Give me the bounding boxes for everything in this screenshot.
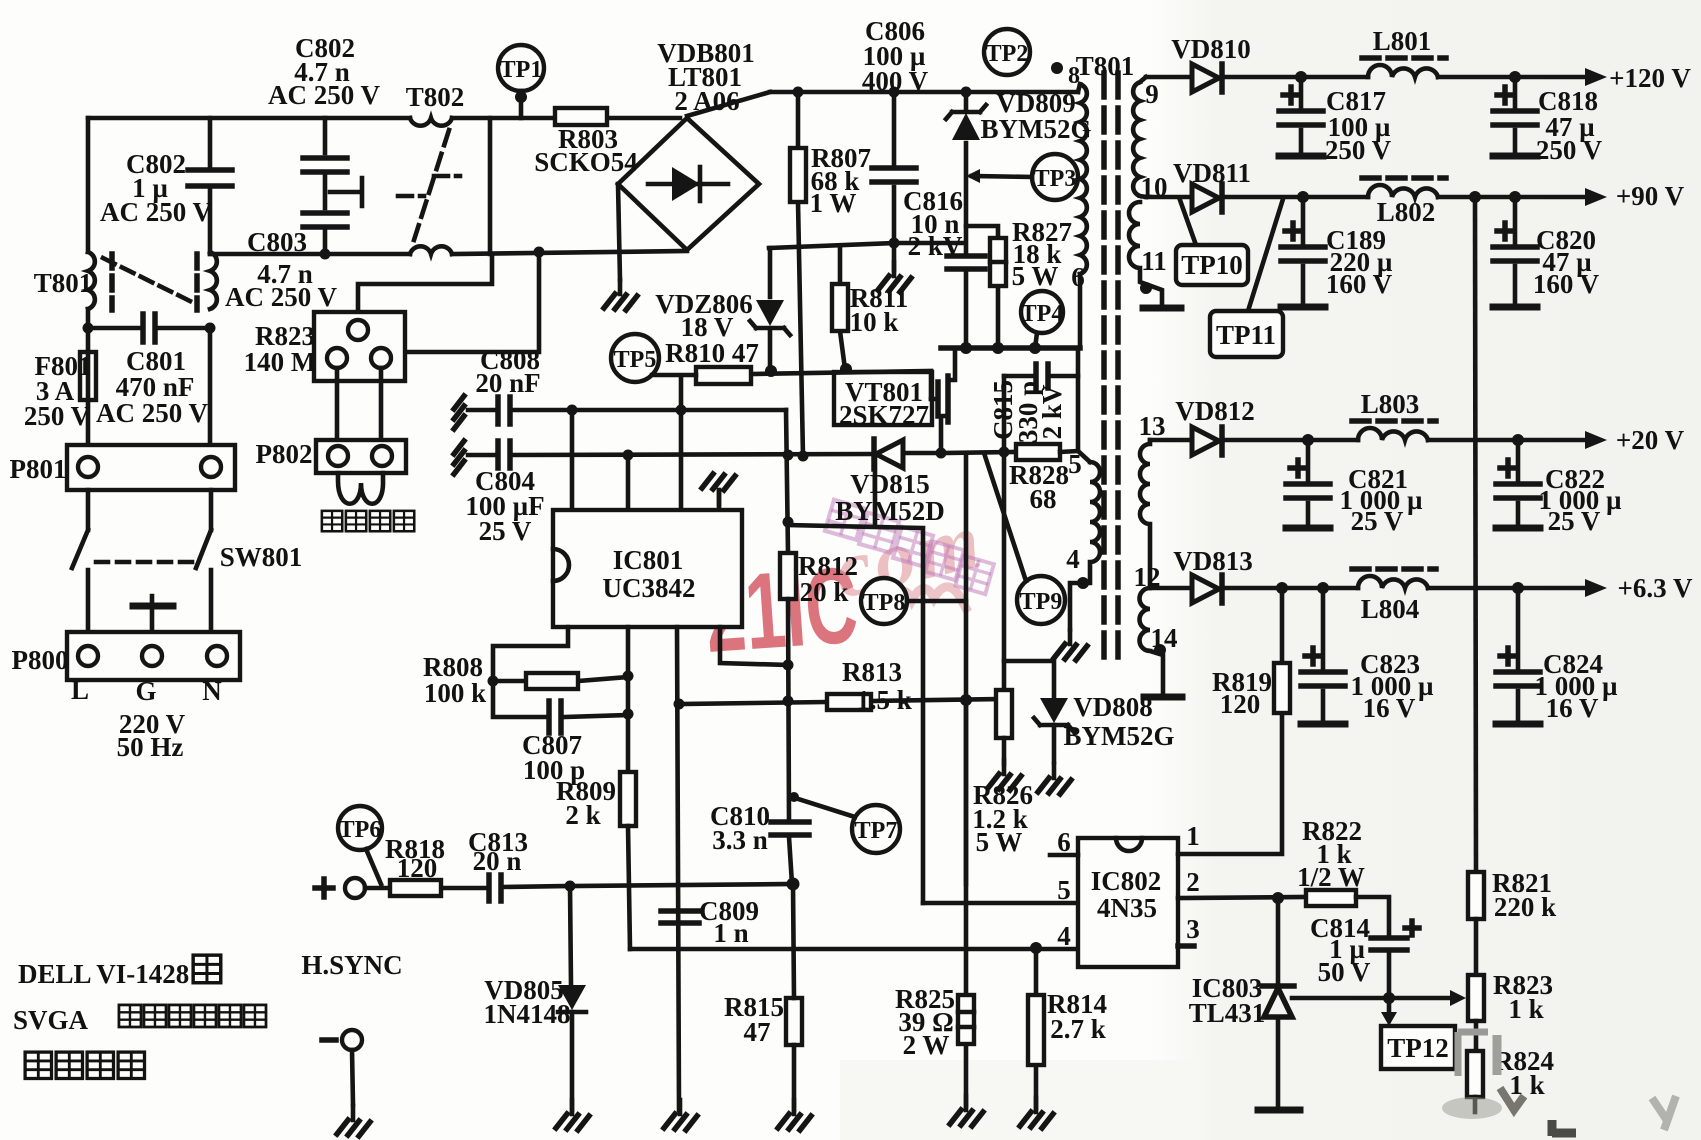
capacitor C822 bbox=[1496, 440, 1540, 528]
wire primary return bar bbox=[941, 345, 1080, 351]
svg-text:P802: P802 bbox=[256, 439, 313, 469]
capacitor C821 bbox=[1286, 440, 1330, 528]
test point TP12 box with arrow bbox=[1381, 1004, 1455, 1069]
node C808 line pin bbox=[567, 405, 578, 416]
node R819 bbox=[1276, 582, 1288, 594]
svg-text:2 A06: 2 A06 bbox=[674, 86, 739, 116]
node C818 bbox=[1509, 71, 1521, 83]
wire TP8 vertical bbox=[964, 455, 969, 884]
wire C815 down to R826 bbox=[1002, 376, 1007, 690]
svg-text:1/2 W: 1/2 W bbox=[1297, 862, 1365, 892]
arrow +20V bbox=[1585, 431, 1607, 449]
node C821 bbox=[1302, 434, 1314, 446]
transformer T802 bbox=[398, 118, 460, 254]
resistor R803 bbox=[555, 108, 607, 125]
svg-text:DELL VI-1428: DELL VI-1428 bbox=[18, 959, 189, 989]
node C804 line IC pin bbox=[623, 450, 634, 461]
svg-text:1.5 k: 1.5 k bbox=[856, 685, 912, 715]
capacitor C815 bbox=[1004, 364, 1078, 388]
zener VDZ806 bbox=[750, 248, 790, 366]
HV bus wire 400V bbox=[770, 90, 1078, 95]
node R823 ref bbox=[1475, 997, 1477, 999]
earth bar above P800 bbox=[133, 596, 173, 632]
node IC pin C808 line bbox=[676, 405, 687, 416]
ground R825 bbox=[950, 1096, 983, 1126]
ground C809 bbox=[664, 1100, 697, 1130]
resistor R822 bbox=[1306, 890, 1356, 906]
svg-text:TP12: TP12 bbox=[1387, 1033, 1449, 1063]
diode VD812 bbox=[1192, 427, 1222, 455]
node degauss tap bbox=[534, 247, 545, 258]
arrow +120V bbox=[1585, 68, 1607, 86]
diode VD808 bbox=[1034, 698, 1074, 762]
svg-text:T801: T801 bbox=[1076, 51, 1135, 81]
transistor VT801 MOSFET bbox=[834, 372, 948, 453]
svg-text:L802: L802 bbox=[1377, 197, 1436, 227]
node feedback tap bbox=[1469, 191, 1481, 203]
wire IC801 pin C809 vertical bbox=[677, 627, 679, 1110]
ground TL431 bar bbox=[1258, 1107, 1300, 1114]
svg-text:2 W: 2 W bbox=[903, 1030, 950, 1060]
connector P801 bbox=[67, 445, 235, 490]
node C820 bbox=[1509, 191, 1521, 203]
rail +20V wire bbox=[1150, 438, 1597, 443]
test point TP4 bbox=[1021, 291, 1063, 348]
wire R828 to pin5 bbox=[1060, 348, 1078, 452]
node R808 right bbox=[623, 671, 634, 682]
node pin14 dot bbox=[1154, 644, 1166, 656]
svg-text:L: L bbox=[71, 675, 89, 705]
wire HSYNC line bbox=[570, 884, 793, 886]
degauss coil loops bbox=[338, 473, 383, 504]
rail +120V wire bbox=[1146, 75, 1597, 80]
svg-text:TP2: TP2 bbox=[986, 41, 1029, 67]
test point TP7 bbox=[789, 792, 900, 853]
fuse F801 bbox=[80, 328, 96, 445]
diode VD805 bbox=[558, 886, 586, 1110]
capacitor C808 with ground flag bbox=[454, 396, 786, 429]
svg-text:20 nF: 20 nF bbox=[475, 368, 540, 398]
node C815 drop bbox=[999, 447, 1010, 458]
svg-text:14: 14 bbox=[1151, 623, 1178, 653]
svg-text:IC802: IC802 bbox=[1091, 866, 1162, 896]
ground pin14 bar bbox=[1144, 694, 1182, 701]
transformer T801 core bbox=[1104, 73, 1118, 662]
resistor R811 bbox=[832, 246, 848, 369]
svg-text:SVGA: SVGA bbox=[13, 1005, 89, 1035]
capacitor C810 bbox=[771, 822, 809, 884]
svg-text:+120 V: +120 V bbox=[1609, 63, 1691, 93]
resistor R823 bbox=[1468, 975, 1484, 1051]
test point TP10 link bbox=[1180, 200, 1196, 245]
test point TP5 bbox=[611, 334, 696, 382]
ground bridge bbox=[604, 280, 637, 310]
svg-text:250 V: 250 V bbox=[1536, 135, 1603, 165]
node R812 bottom IC link bbox=[783, 660, 794, 671]
capacitor C802 4.7n with shield tap bbox=[303, 118, 362, 254]
wire top AC bus bbox=[88, 116, 680, 121]
node TP12 drop bbox=[1383, 992, 1395, 1004]
resistor R825 bbox=[958, 700, 974, 1106]
svg-text:2 k: 2 k bbox=[565, 800, 600, 830]
node C816 line bbox=[889, 238, 900, 249]
node R812 top link bbox=[783, 517, 794, 528]
connector P800 bbox=[67, 632, 240, 680]
svg-text:250 V: 250 V bbox=[1325, 135, 1392, 165]
wire R822 to C814 bbox=[1356, 897, 1389, 935]
transformer T801 secondary winding 10-11 bbox=[1129, 202, 1162, 306]
svg-text:9: 9 bbox=[1145, 79, 1159, 109]
svg-text:IC801: IC801 bbox=[613, 545, 684, 575]
svg-text:1N4148: 1N4148 bbox=[484, 999, 571, 1029]
svg-text:250 V: 250 V bbox=[24, 401, 91, 431]
svg-text:TP1: TP1 bbox=[500, 57, 543, 83]
svg-text:AC 250 V: AC 250 V bbox=[268, 80, 381, 110]
transformer T801 secondary winding 12 bbox=[1140, 588, 1164, 694]
node VT801 source bbox=[936, 448, 947, 459]
ground H.SYNC bbox=[337, 1106, 370, 1136]
svg-text:BYM52D: BYM52D bbox=[835, 496, 945, 526]
wire VDZ806/R811/C816 line bbox=[769, 243, 965, 248]
svg-text:120: 120 bbox=[1220, 689, 1261, 719]
capacitor C802 1u bbox=[188, 118, 232, 254]
wire TP5 to IC801 pin bbox=[679, 376, 684, 510]
capacitor C807 bbox=[493, 681, 634, 733]
svg-text:L803: L803 bbox=[1361, 389, 1420, 419]
svg-text:1: 1 bbox=[1186, 821, 1200, 851]
svg-text:6: 6 bbox=[1071, 262, 1085, 292]
arrow +6.3V bbox=[1585, 579, 1607, 597]
svg-text:5: 5 bbox=[1057, 875, 1071, 905]
svg-text:VD812: VD812 bbox=[1175, 396, 1255, 426]
svg-text:20 k: 20 k bbox=[800, 577, 849, 607]
resistor R812 bbox=[780, 553, 796, 820]
svg-text:1 W: 1 W bbox=[810, 188, 857, 218]
wire R826 VD808 link bbox=[1004, 661, 1054, 698]
diode VD811 bbox=[1192, 184, 1222, 212]
svg-text:R810 47: R810 47 bbox=[665, 338, 759, 368]
diode VD810 bbox=[1192, 64, 1222, 92]
resistor R821 bbox=[1468, 872, 1484, 975]
resistor R828 bbox=[1016, 444, 1060, 460]
wire C808 line down to R812 bbox=[786, 410, 788, 553]
node VD809 top bbox=[961, 87, 972, 98]
svg-text:VD808: VD808 bbox=[1073, 692, 1153, 722]
capacitor C820 bbox=[1493, 197, 1537, 307]
svg-text:68: 68 bbox=[1030, 484, 1057, 514]
transformer T801 secondary winding 13 bbox=[1140, 440, 1150, 588]
svg-text:AC 250 V: AC 250 V bbox=[96, 398, 209, 428]
ground VD805 bbox=[556, 1100, 589, 1130]
capacitor C804 with ground flag bbox=[454, 441, 874, 474]
svg-text:100 k: 100 k bbox=[424, 678, 486, 708]
node R813 line left end bbox=[674, 699, 685, 710]
resistor R818 bbox=[365, 880, 486, 896]
inductor L803 bbox=[1352, 421, 1436, 440]
inductor L801 bbox=[1362, 58, 1446, 77]
capacitor C824 bbox=[1496, 588, 1540, 724]
wire VD815 line to R828 bbox=[941, 452, 1016, 453]
svg-text:L801: L801 bbox=[1373, 26, 1432, 56]
node R813 left bbox=[783, 696, 794, 707]
resistor R808 bbox=[493, 673, 628, 689]
test point TP1 bbox=[498, 45, 544, 118]
wire pin1 to R819 bbox=[1178, 713, 1282, 854]
node C823 bbox=[1317, 582, 1329, 594]
svg-text:TP3: TP3 bbox=[1034, 166, 1077, 192]
node R811 bottom bbox=[840, 363, 852, 375]
wire IC pin from C804 line bbox=[626, 455, 631, 510]
svg-text:50 V: 50 V bbox=[1318, 957, 1371, 987]
title power circuit line bbox=[25, 1052, 144, 1078]
svg-text:P801: P801 bbox=[10, 454, 67, 484]
svg-text:2.7 k: 2.7 k bbox=[1050, 1014, 1106, 1044]
wire degauss feed right bbox=[390, 252, 539, 352]
node pin8 dot bbox=[1051, 62, 1063, 74]
H.SYNC lower connector bbox=[322, 1030, 362, 1104]
svg-text:2SK727: 2SK727 bbox=[839, 400, 929, 430]
svg-text:10: 10 bbox=[1141, 172, 1168, 202]
svg-text:TP4: TP4 bbox=[1021, 301, 1064, 327]
arrow +90V bbox=[1585, 188, 1607, 206]
ground C806 bbox=[878, 262, 911, 292]
svg-text:3: 3 bbox=[1186, 914, 1200, 944]
svg-text:TP10: TP10 bbox=[1181, 250, 1243, 280]
svg-text:VD811: VD811 bbox=[1173, 158, 1251, 188]
H.SYNC input plus connector bbox=[315, 878, 365, 898]
svg-text:4: 4 bbox=[1066, 544, 1080, 574]
ground R826 bbox=[988, 760, 1021, 790]
node C817 bbox=[1295, 71, 1307, 83]
svg-text:L804: L804 bbox=[1361, 594, 1420, 624]
wire pin2 line bbox=[1178, 897, 1306, 898]
red 21IC.com watermark bbox=[701, 496, 994, 675]
test point TP8 bbox=[861, 578, 966, 624]
pin 6 stub bbox=[1050, 853, 1078, 858]
node R814 top bbox=[1030, 942, 1042, 954]
svg-text:+6.3 V: +6.3 V bbox=[1618, 573, 1693, 603]
wire TL431 ref line bbox=[1292, 996, 1452, 1001]
diode VD815 bbox=[874, 439, 941, 469]
resistor R813 bbox=[827, 694, 871, 710]
capacitor C816 bbox=[947, 256, 985, 348]
wire bridge left vertex to ground bbox=[618, 184, 620, 280]
test point TP2 bbox=[984, 29, 1030, 75]
ground pin11 bar bbox=[1143, 305, 1181, 312]
svg-text:AC 250 V: AC 250 V bbox=[100, 197, 213, 227]
svg-text:T802: T802 bbox=[406, 82, 465, 112]
wire feedback vertical bbox=[1475, 197, 1476, 872]
node bar R827 bbox=[992, 342, 1004, 354]
test point TP10 box bbox=[1176, 245, 1248, 285]
capacitor C818 bbox=[1493, 77, 1537, 156]
svg-text:2 kV: 2 kV bbox=[908, 231, 963, 261]
svg-text:2: 2 bbox=[1186, 867, 1200, 897]
node R807 top bbox=[793, 87, 804, 98]
label degauss coil bbox=[322, 511, 414, 531]
wire R813 line bbox=[679, 699, 1004, 704]
svg-text:20 n: 20 n bbox=[473, 846, 522, 876]
test point TP6 bbox=[338, 806, 382, 884]
node C189 bbox=[1297, 191, 1309, 203]
node C806 top bbox=[889, 87, 900, 98]
svg-text:G: G bbox=[135, 676, 156, 706]
svg-text:4: 4 bbox=[1057, 921, 1071, 951]
node pin2 TL431 bbox=[1272, 892, 1284, 904]
svg-text:TP6: TP6 bbox=[339, 817, 382, 843]
svg-text:N: N bbox=[202, 676, 222, 706]
svg-text:VD815: VD815 bbox=[850, 469, 930, 499]
wire drain VT801 bbox=[948, 348, 955, 380]
IC IC802 4N35 bbox=[1078, 838, 1178, 967]
svg-text:1 n: 1 n bbox=[713, 918, 748, 948]
svg-text:P800: P800 bbox=[12, 645, 69, 675]
svg-text:5: 5 bbox=[1068, 449, 1082, 479]
test point TP9 bbox=[984, 453, 1065, 624]
node C802 bottom bbox=[320, 249, 331, 260]
svg-text:140 M: 140 M bbox=[244, 347, 317, 377]
svg-text:AC 250 V: AC 250 V bbox=[225, 282, 338, 312]
capacitor C189 bbox=[1281, 197, 1325, 307]
node VCC line-R812 bbox=[783, 450, 794, 461]
svg-text:25 V: 25 V bbox=[1548, 506, 1601, 536]
rail +90V wire bbox=[1146, 195, 1597, 200]
resistor R809 bbox=[620, 772, 636, 949]
svg-text:BYM52G: BYM52G bbox=[1064, 721, 1175, 751]
svg-text:220 k: 220 k bbox=[1494, 892, 1556, 922]
svg-text:T801: T801 bbox=[34, 268, 93, 298]
wire C803 line bbox=[210, 251, 687, 254]
node pin11 dot bbox=[1140, 282, 1152, 294]
IC U801 UC3842 bbox=[553, 510, 742, 627]
rail +6.3V wire bbox=[1150, 586, 1597, 591]
svg-text:C803: C803 bbox=[247, 227, 307, 257]
node C822 bbox=[1512, 434, 1524, 446]
wire IC802 pin5 line bbox=[923, 901, 1078, 906]
capacitor C814 bbox=[1371, 921, 1419, 998]
wire IC801 pin to R812 line bbox=[720, 627, 788, 665]
inductor L802 bbox=[1362, 178, 1446, 197]
capacitor C817 bbox=[1279, 77, 1323, 156]
gray artifacts bottom right bbox=[1458, 1032, 1488, 1076]
resistor R819 bbox=[1274, 588, 1290, 713]
svg-text:5 W: 5 W bbox=[976, 827, 1023, 857]
diode VD813 bbox=[1192, 575, 1222, 603]
capacitor C809 bbox=[661, 911, 699, 923]
wire IC802 pin4 line bbox=[630, 947, 1078, 952]
transformer T801 winding 5-4 bbox=[1070, 451, 1100, 630]
resistor R827 bbox=[966, 226, 1006, 348]
node VDZ806 anode bbox=[765, 365, 777, 377]
wires PTC to P802 bbox=[337, 368, 381, 440]
svg-text:4N35: 4N35 bbox=[1097, 893, 1157, 923]
wire IC801 pin R809 vertical bbox=[626, 627, 631, 772]
wire bridge top to HV bus bbox=[687, 92, 770, 116]
capacitor C813 bbox=[489, 875, 570, 901]
svg-text:VD813: VD813 bbox=[1173, 546, 1253, 576]
svg-text:11: 11 bbox=[1141, 246, 1167, 276]
resistor R815 bbox=[786, 884, 802, 1110]
svg-text:8: 8 bbox=[1068, 63, 1080, 89]
svg-text:TL431: TL431 bbox=[1189, 998, 1266, 1028]
svg-text:25 V: 25 V bbox=[479, 516, 532, 546]
transformer T801 line filter bbox=[88, 118, 217, 328]
svg-text:UC3842: UC3842 bbox=[603, 573, 696, 603]
svg-text:BYM52G: BYM52G bbox=[981, 114, 1092, 144]
wire T802 right side bbox=[488, 118, 493, 254]
test point TP11 box bbox=[1210, 311, 1283, 357]
node C824 bbox=[1512, 582, 1524, 594]
PTC R823 box bbox=[314, 312, 405, 381]
svg-text:13: 13 bbox=[1139, 411, 1166, 441]
transformer T801 secondary winding 9-10 bbox=[1133, 77, 1146, 197]
svg-text:TP8: TP8 bbox=[863, 590, 906, 616]
resistor R826 bbox=[996, 690, 1012, 764]
wire degauss feed left bbox=[358, 254, 492, 314]
ground R814 bbox=[1020, 1098, 1053, 1128]
bridge rectifier VDB801 bbox=[618, 118, 759, 250]
connector P802 bbox=[316, 440, 406, 473]
wire IC pin from C808 line bbox=[570, 410, 575, 510]
node R815 top bbox=[787, 878, 800, 891]
svg-text:120: 120 bbox=[397, 853, 438, 883]
node pin4 dot bbox=[1077, 577, 1089, 589]
svg-text:+90 V: +90 V bbox=[1616, 181, 1685, 211]
svg-text:400 V: 400 V bbox=[862, 66, 929, 96]
capacitor C823 bbox=[1301, 588, 1345, 724]
shunt reg IC803 TL431 bbox=[1262, 898, 1294, 1108]
node R813 R825 bbox=[960, 694, 972, 706]
svg-text:H.SYNC: H.SYNC bbox=[301, 950, 402, 980]
svg-text:5 W: 5 W bbox=[1012, 261, 1059, 291]
svg-text:16 V: 16 V bbox=[1546, 693, 1599, 723]
svg-text:6: 6 bbox=[1057, 827, 1071, 857]
node bar C816 bbox=[960, 342, 972, 354]
svg-text:160 V: 160 V bbox=[1533, 269, 1600, 299]
ground R815 bbox=[778, 1100, 811, 1130]
test point TP3 with arrow bbox=[966, 154, 1078, 200]
pin 3 stub bbox=[1178, 943, 1194, 949]
switch SW801 bbox=[72, 490, 211, 632]
svg-text:+20 V: +20 V bbox=[1616, 425, 1685, 455]
ground above IC801 bbox=[702, 474, 735, 510]
svg-text:TP11: TP11 bbox=[1216, 320, 1276, 350]
wire to P801 right bbox=[208, 328, 213, 445]
ground pin4 bbox=[1054, 630, 1087, 660]
svg-text:SW801: SW801 bbox=[220, 542, 303, 572]
svg-text:16 V: 16 V bbox=[1363, 693, 1416, 723]
svg-text:160 V: 160 V bbox=[1326, 269, 1393, 299]
svg-text:TP7: TP7 bbox=[855, 818, 898, 844]
svg-text:2 kV: 2 kV bbox=[1037, 384, 1067, 439]
zener VD809 bbox=[946, 92, 986, 254]
svg-text:TP5: TP5 bbox=[614, 347, 657, 373]
resistor R814 bbox=[1028, 948, 1044, 1108]
node bar TP4 bbox=[1029, 342, 1041, 354]
svg-text:25 V: 25 V bbox=[1351, 506, 1404, 536]
svg-text:50 Hz: 50 Hz bbox=[117, 732, 184, 762]
svg-text:VD810: VD810 bbox=[1171, 34, 1251, 64]
svg-text:R813: R813 bbox=[842, 657, 902, 687]
node VD805 drop bbox=[565, 881, 576, 892]
node R807 line bottom bbox=[798, 451, 809, 462]
wire R812 link bbox=[788, 457, 923, 903]
node R808 left bbox=[488, 676, 499, 687]
svg-text:1 k: 1 k bbox=[1509, 1070, 1544, 1100]
test point TP11 link bbox=[1248, 199, 1283, 311]
svg-text:TP9: TP9 bbox=[1020, 589, 1063, 615]
svg-text:1 k: 1 k bbox=[1508, 994, 1543, 1024]
